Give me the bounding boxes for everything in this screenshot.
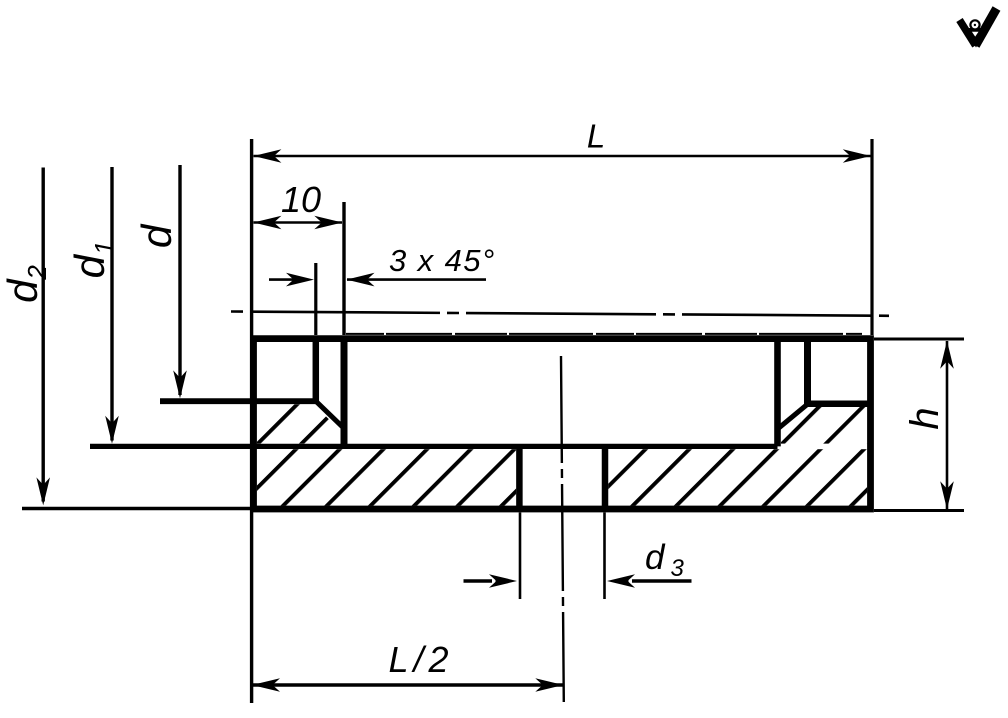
recess left wall — [341, 339, 348, 447]
hatched section: upper-right flange area — [781, 407, 867, 444]
surface finish symbol: white notch under ring — [972, 32, 979, 37]
svg-text:h: h — [903, 407, 947, 429]
svg-text:L/2: L/2 — [388, 639, 453, 680]
left chamfer 3x45 — [316, 401, 345, 429]
hatched section: upper-left flange area — [257, 404, 341, 443]
L dimension line — [254, 155, 871, 158]
vertical hole centerline dash-dot — [561, 356, 564, 702]
right step edge — [808, 401, 874, 408]
h dimension line with two arrows — [946, 341, 949, 509]
svg-text:d1: d1 — [66, 241, 119, 279]
d3 extension line right below part — [603, 513, 606, 600]
surface finish symbol: ring — [969, 19, 980, 30]
h reference line bottom — [874, 509, 964, 512]
left counterbore wall — [313, 339, 320, 402]
chamfer leader right segment with arrow — [347, 278, 486, 281]
hole d3 right wall — [602, 446, 609, 509]
svg-text:10: 10 — [281, 179, 321, 220]
svg-text:d3: d3 — [645, 538, 684, 582]
thin scan double line above top edge in recess span — [346, 333, 862, 335]
right counterbore wall — [804, 339, 811, 404]
surface finish symbol: check stroke left — [960, 20, 976, 46]
d3 dimension left segment with arrow — [464, 579, 493, 583]
L/2 dimension line — [252, 683, 564, 686]
L dimension extension line left (shared with L/2) — [250, 139, 253, 703]
d diameter leader line with down arrow — [178, 165, 181, 395]
chamfer extension line — [314, 263, 317, 335]
h reference line top — [874, 338, 964, 341]
surface finish symbol: filled vee interior — [964, 28, 989, 48]
svg-text:3 x 45°: 3 x 45° — [389, 243, 496, 278]
d3 dimension right segment with arrow — [632, 579, 692, 583]
chamfer leader left segment with arrow — [269, 278, 295, 281]
left step edge (with d reference extension) — [160, 398, 319, 404]
part outer outline rect — [254, 339, 871, 509]
hatched section: bottom band left of hole d3 — [257, 449, 516, 506]
10 dimension extension line at recess wall — [342, 202, 345, 335]
hatched section: bottom band right of hole d3 — [608, 449, 867, 506]
svg-text:d: d — [133, 223, 180, 248]
svg-text:d2: d2 — [0, 265, 52, 303]
L dimension extension line right — [870, 139, 873, 335]
d3 extension line left below part — [519, 513, 522, 600]
10 dimension line — [254, 221, 343, 224]
d2 reference line extending bottom edge left — [22, 507, 250, 510]
d1 diameter leader line with down arrow — [110, 167, 113, 441]
horizontal axis centerline dash-dot — [231, 312, 889, 316]
right chamfer — [777, 404, 808, 429]
hole d3 left wall — [516, 446, 523, 509]
d2 diameter leader line with down arrow — [42, 168, 45, 502]
surface finish symbol: check stroke right — [976, 9, 997, 46]
recess bottom edge (with d1 reference extension) — [90, 444, 778, 449]
recess right wall — [774, 339, 781, 447]
svg-text:L: L — [587, 118, 605, 155]
